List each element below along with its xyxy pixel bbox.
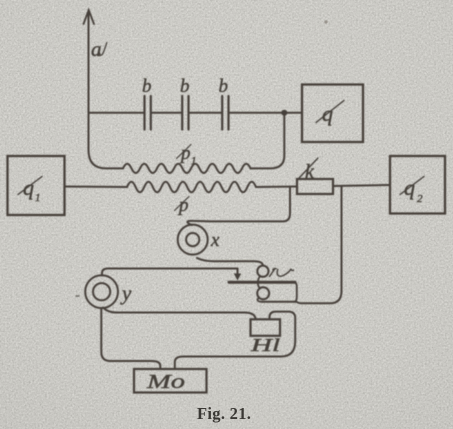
relay coil y inner bbox=[93, 283, 110, 300]
wire x top to P wire tap bbox=[187, 188, 290, 226]
wire C1 to C2 bbox=[152, 112, 181, 114]
label q2 bbox=[400, 175, 424, 205]
battery Hl bbox=[251, 319, 281, 336]
capacitor b (first) bbox=[145, 96, 151, 130]
relay coil y outer bbox=[85, 275, 118, 308]
capacitor b (third) bbox=[222, 96, 228, 130]
hammer arrowhead bbox=[234, 274, 241, 281]
svg-text:a: a bbox=[91, 37, 102, 61]
svg-text:x: x bbox=[210, 230, 220, 251]
capacitor b (second) bbox=[182, 96, 188, 130]
box Mo bbox=[134, 369, 207, 393]
svg-text:q: q bbox=[23, 175, 34, 200]
svg-text:Hl: Hl bbox=[249, 335, 280, 355]
paper speck left of y bbox=[76, 295, 79, 297]
inductor P1 (coupled coil, upper) bbox=[123, 164, 251, 173]
paper speck top right bbox=[324, 20, 327, 23]
svg-text:b: b bbox=[142, 76, 152, 97]
wire capacitor chain (antenna tap to C1) bbox=[89, 112, 144, 114]
wire resistor k to q2 bbox=[333, 185, 390, 186]
label a bbox=[91, 37, 107, 61]
wire q1 to coil P bbox=[65, 186, 128, 189]
contact roller r upper bbox=[257, 266, 268, 277]
node junction dot bbox=[281, 110, 287, 116]
label P bbox=[175, 195, 190, 216]
resistor k bbox=[297, 179, 333, 194]
wire node down to coil P1 right end bbox=[251, 113, 285, 169]
wire y bottom down to Mo (left lead) bbox=[101, 308, 160, 369]
svg-text:y: y bbox=[120, 281, 132, 305]
link between rollers bbox=[258, 276, 260, 288]
label q bbox=[316, 101, 344, 127]
label P1 bbox=[177, 143, 197, 167]
wire C2 to C3 bbox=[190, 112, 222, 114]
svg-text:b: b bbox=[219, 76, 229, 97]
box q bbox=[302, 85, 363, 143]
label k bbox=[299, 158, 318, 183]
label q1 bbox=[18, 175, 42, 204]
wire coil P to resistor k bbox=[256, 186, 297, 189]
contact bar bbox=[229, 281, 295, 284]
contact roller r lower bbox=[257, 287, 269, 299]
svg-text:b: b bbox=[180, 76, 190, 97]
wire bar end drop to lower contact line bbox=[294, 283, 297, 302]
wire node to box q bbox=[284, 112, 302, 114]
wire x bottom to upper roller r bbox=[197, 258, 263, 266]
svg-text:k: k bbox=[305, 161, 315, 183]
box q2 bbox=[390, 156, 445, 214]
svg-text:Mo: Mo bbox=[146, 371, 185, 393]
inductor P (coupled coil, lower) bbox=[127, 182, 256, 193]
antenna arrowhead bbox=[84, 10, 95, 24]
coil x inner bbox=[186, 233, 199, 246]
antenna wire a (vertical with arrow, lead-in to coil P1 left end) bbox=[89, 11, 124, 168]
wire y bottom right to Hl left terminal bbox=[103, 308, 256, 320]
svg-text:1: 1 bbox=[35, 192, 41, 204]
wire lower roller to contact line bbox=[258, 298, 262, 302]
svg-text:1: 1 bbox=[191, 155, 197, 167]
box q1 bbox=[8, 156, 65, 215]
wire y top to hammer arrow bbox=[102, 269, 238, 276]
wire C3 to node bbox=[230, 112, 285, 114]
label r bbox=[270, 268, 294, 276]
wire Hl right terminal loop to Mo (right lead) bbox=[175, 312, 295, 369]
svg-text:2: 2 bbox=[417, 193, 423, 205]
coil x outer bbox=[178, 225, 208, 255]
wire branch k down to lower contact line bbox=[262, 186, 342, 303]
svg-text:Fig. 21.: Fig. 21. bbox=[197, 404, 251, 423]
